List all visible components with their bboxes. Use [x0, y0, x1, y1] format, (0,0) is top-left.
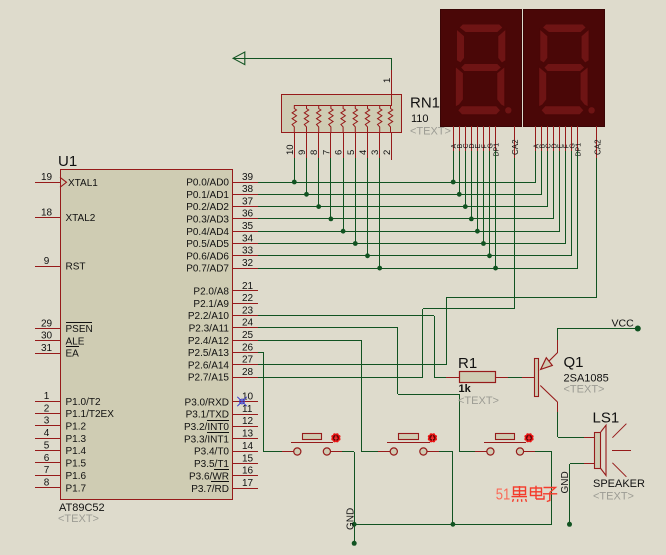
U1 pin 24 P2.3/A11 — [189, 318, 258, 335]
svg-text:18: 18 — [41, 207, 53, 218]
svg-text:R1: R1 — [458, 355, 477, 372]
svg-text:8: 8 — [309, 150, 320, 155]
wire display1 seg E vertical — [477, 151, 479, 231]
svg-text:P0.5/AD5: P0.5/AD5 — [186, 239, 229, 250]
wire P2.3 to button3 (lower horizontal) — [460, 451, 475, 453]
U1 pin 16 P3.6/WR — [189, 466, 258, 483]
svg-text:32: 32 — [242, 258, 254, 269]
svg-text:P2.4/A12: P2.4/A12 — [188, 336, 230, 347]
junction GND bus / button2 — [451, 522, 456, 527]
RN1 internal common bus — [294, 105, 392, 107]
svg-text:7: 7 — [44, 465, 50, 476]
svg-text:110: 110 — [411, 113, 429, 125]
svg-text:15: 15 — [242, 453, 254, 464]
push button 3 (P2.3 net) — [475, 433, 535, 455]
U1 pin 1 P1.0/T2 — [35, 391, 101, 408]
svg-text:21: 21 — [242, 281, 254, 292]
RN1 pin 6 stub — [334, 132, 345, 158]
svg-text:2: 2 — [44, 403, 50, 414]
svg-text:P0.4/AD4: P0.4/AD4 — [186, 227, 229, 238]
wire P0.7 net (horizontal) — [258, 268, 578, 270]
svg-text:36: 36 — [242, 209, 254, 220]
display2 pin F stub — [564, 126, 571, 151]
wire Q1 emitter to VCC — [557, 328, 559, 340]
U1 pin 28 P2.7/A15 — [188, 367, 258, 384]
U1 pin 19 XTAL1 — [35, 172, 98, 189]
U1 pin 5 P1.4 — [35, 440, 87, 457]
svg-text:<TEXT>: <TEXT> — [458, 395, 499, 407]
svg-text:3: 3 — [370, 150, 381, 155]
wire P2.2 to R1 (horizontal) — [258, 315, 434, 317]
Q1 reference label — [564, 354, 584, 371]
junction display1 seg D / P0.3 — [469, 217, 474, 222]
Q1 emitter diagonal — [541, 353, 558, 370]
svg-text:P1.5: P1.5 — [66, 459, 87, 470]
RN1 resistor element 2 — [388, 105, 392, 132]
svg-text:P2.5/A13: P2.5/A13 — [188, 348, 230, 359]
wire P2.5 to button1 (vertical) — [263, 352, 265, 452]
junction display1 seg B / P0.1 — [457, 192, 462, 197]
Q1 property text — [564, 384, 605, 396]
svg-text:28: 28 — [242, 367, 254, 378]
wire LS1 to GND (vertical) — [569, 464, 571, 524]
RN1 resistor element 7 — [329, 105, 333, 132]
U1 pin 35 P0.4/AD4 — [186, 221, 258, 238]
RN1 resistor element 9 — [304, 105, 308, 132]
wire display1 CA2 (vertical short) — [422, 309, 424, 377]
U1 pin 36 P0.3/AD3 — [186, 209, 258, 226]
wire Q1 collector to speaker (horizontal) — [558, 437, 584, 439]
svg-text:P2.1/A9: P2.1/A9 — [193, 299, 229, 310]
U1 pin 32 P0.7/AD7 — [186, 258, 258, 275]
svg-text:P2.0/A8: P2.0/A8 — [193, 287, 229, 298]
svg-text:P1.0/T2: P1.0/T2 — [66, 397, 101, 408]
wire P0.0 net (horizontal) — [258, 182, 536, 184]
U1 pin 17 P3.7/RD — [191, 478, 258, 495]
svg-text:GND: GND — [346, 508, 357, 530]
svg-text:P0.2/AD2: P0.2/AD2 — [186, 202, 229, 213]
U1 pin 7 P1.6 — [35, 465, 87, 482]
svg-text:3: 3 — [44, 416, 50, 427]
U1 pin 37 P0.2/AD2 — [186, 196, 258, 213]
RN1 pin 9 stub — [297, 132, 308, 158]
svg-text:51: 51 — [496, 487, 511, 504]
RN1 pin 7 stub — [321, 132, 332, 158]
wire display2 seg D vertical — [553, 151, 555, 219]
U1 pin 14 P3.4/T0 — [194, 441, 258, 458]
svg-text:P0.0/AD0: P0.0/AD0 — [186, 178, 229, 189]
wire display1 CA2 (upper vertical) — [514, 158, 516, 309]
svg-text:CA2: CA2 — [593, 139, 602, 155]
display1 pin D stub — [469, 126, 476, 151]
svg-text:35: 35 — [242, 221, 254, 232]
wire P2.3 to button3 (lower vertical) — [459, 394, 461, 452]
display2 pin A stub — [534, 126, 541, 151]
svg-text:9: 9 — [44, 256, 50, 267]
U1 pin 21 P2.0/A8 — [193, 281, 258, 298]
svg-text:25: 25 — [242, 330, 254, 341]
push button 1 (P2.5 net) — [282, 433, 342, 455]
display2 pin DP1 stub — [576, 126, 583, 157]
svg-text:P3.5/T1: P3.5/T1 — [194, 459, 229, 470]
Q1 value label 2SA1085 — [564, 373, 609, 385]
svg-text:9: 9 — [297, 150, 308, 155]
ground terminal (speaker) — [560, 471, 572, 527]
wire VCC net — [558, 328, 638, 330]
RN1 resistor element 10 — [292, 105, 296, 132]
wire P0.4 net (horizontal) — [258, 231, 560, 233]
svg-text:10: 10 — [285, 144, 296, 155]
U1 pin 12 P3.2/INT0 — [184, 416, 258, 433]
wire P2.3 to button3 (vertical) — [397, 328, 399, 394]
Q1 collector diagonal — [540, 386, 557, 403]
svg-text:4: 4 — [358, 150, 369, 155]
svg-text:P3.0/RXD: P3.0/RXD — [185, 397, 229, 408]
RN1 property text — [410, 126, 451, 138]
junction RN1 pin 4 / P0.6 — [365, 253, 370, 258]
svg-text:12: 12 — [242, 416, 254, 427]
microcontroller U1 AT89C52 body — [61, 170, 233, 500]
wire display2 CA2 (upper vertical) — [596, 158, 598, 298]
junction GND bus / terminal — [352, 522, 357, 527]
svg-text:ALE: ALE — [66, 336, 85, 347]
svg-text:<TEXT>: <TEXT> — [564, 384, 605, 396]
junction display1 seg F / P0.5 — [481, 241, 486, 246]
display2 pin E stub — [558, 126, 565, 151]
resistor R1 body — [460, 372, 496, 383]
LS1 property text — [593, 491, 634, 503]
power terminal VCC — [612, 318, 641, 332]
resistor network RN1 body — [282, 95, 402, 133]
wire P0.6 net (horizontal) — [258, 255, 572, 257]
watermark text 51黑电子 — [496, 486, 557, 504]
svg-text:27: 27 — [242, 355, 254, 366]
wire display1 seg B vertical — [459, 151, 461, 194]
svg-text:XTAL1: XTAL1 — [68, 178, 98, 189]
U1 pin 33 P0.6/AD6 — [186, 246, 258, 263]
wire P2.2 to R1 (lower horizontal) — [434, 377, 446, 379]
junction RN1 pin 10 / P0.0 — [292, 180, 297, 185]
svg-text:P0.7/AD7: P0.7/AD7 — [186, 264, 229, 275]
RN1 resistor element 6 — [341, 105, 345, 132]
7-segment display 1 body — [441, 10, 522, 127]
svg-text:6: 6 — [44, 453, 50, 464]
svg-text:P3.7/RD: P3.7/RD — [191, 484, 229, 495]
svg-text:P3.2/INT0: P3.2/INT0 — [184, 422, 229, 433]
U1 value label AT89C52 — [59, 502, 105, 514]
svg-text:33: 33 — [242, 246, 254, 257]
svg-text:U1: U1 — [58, 153, 77, 170]
wire display1 seg DP1 vertical — [495, 151, 497, 268]
Q1 collector lead vertical — [557, 402, 559, 412]
wire P0.5 net (horizontal) — [258, 243, 566, 245]
wire RN1 pin 8 vertical — [318, 158, 320, 207]
svg-text:1k: 1k — [459, 383, 472, 395]
display2 pin D stub — [552, 126, 559, 151]
wire P0.2 net (horizontal) — [258, 206, 548, 208]
svg-text:XTAL2: XTAL2 — [66, 213, 96, 224]
svg-text:GND: GND — [560, 471, 571, 493]
svg-text:SPEAKER: SPEAKER — [593, 478, 645, 490]
svg-text:P2.7/A15: P2.7/A15 — [188, 373, 230, 384]
wire RN1 pin 5 vertical — [355, 158, 357, 244]
svg-text:10: 10 — [242, 392, 254, 403]
junction display1 seg C / P0.2 — [463, 204, 468, 209]
wire GND bus (horizontal) — [354, 524, 552, 526]
svg-text:34: 34 — [242, 233, 254, 244]
svg-text:P3.4/T0: P3.4/T0 — [194, 447, 229, 458]
junction display1 seg G / P0.6 — [487, 253, 492, 258]
U1 pin 30 ALE — [35, 331, 85, 348]
svg-text:<TEXT>: <TEXT> — [410, 126, 451, 138]
LS1 reference label — [593, 410, 620, 427]
wire display2 seg E vertical — [559, 151, 561, 231]
display2 pin CA2 stub — [593, 126, 602, 158]
RN1 resistor element 4 — [365, 105, 369, 132]
junction RN1 pin 9 / P0.1 — [304, 192, 309, 197]
R1 reference label — [458, 355, 477, 372]
display2 pin C stub — [546, 126, 553, 151]
svg-text:16: 16 — [242, 466, 254, 477]
U1 pin 10 P3.0/RXD — [185, 392, 258, 409]
wire display2 seg C vertical — [547, 151, 549, 207]
wire R1 to Q1 base — [508, 377, 522, 379]
wire LS1 to GND (horizontal) — [570, 463, 584, 465]
wire RN1 pin 4 vertical — [367, 158, 369, 256]
U1 pin 18 XTAL2 — [35, 207, 96, 224]
svg-text:PSEN: PSEN — [66, 324, 93, 335]
wire P2.5 to button1 (horizontal) — [258, 352, 264, 354]
svg-text:DP1: DP1 — [493, 143, 500, 157]
svg-text:P3.3/INT1: P3.3/INT1 — [184, 434, 229, 445]
RN1 pin 1 internal lead — [391, 95, 393, 105]
U1 pin 13 P3.3/INT1 — [184, 429, 258, 446]
U1 property text — [58, 513, 99, 525]
U1 pin 29 PSEN — [35, 318, 93, 335]
U1 pin 25 P2.4/A12 — [188, 330, 258, 347]
svg-text:38: 38 — [242, 184, 254, 195]
display1 pin G stub — [487, 126, 494, 151]
svg-text:<TEXT>: <TEXT> — [593, 491, 634, 503]
RN1 pin 4 stub — [358, 132, 369, 158]
svg-text:P0.3/AD3: P0.3/AD3 — [186, 215, 229, 226]
wire display1 seg G vertical — [489, 151, 491, 256]
RN1 pin 5 stub — [346, 132, 357, 158]
svg-text:19: 19 — [41, 172, 53, 183]
wire button2 to GND bus — [439, 452, 453, 525]
U1 pin 26 P2.5/A13 — [188, 342, 258, 359]
svg-text:P2.6/A14: P2.6/A14 — [188, 360, 230, 371]
svg-text:6: 6 — [334, 150, 345, 155]
svg-text:EA: EA — [66, 349, 80, 360]
RN1 pin 10 stub — [285, 132, 296, 158]
svg-text:P0.6/AD6: P0.6/AD6 — [186, 251, 229, 262]
display1 pin B stub — [457, 126, 464, 151]
junction RN1 pin 5 / P0.5 — [353, 241, 358, 246]
push button 2 (P2.4 net) — [378, 433, 439, 455]
wire display2 seg DP1 vertical — [577, 151, 579, 268]
U1 pin 27 P2.6/A14 — [188, 355, 258, 372]
wire P2.7 net (horizontal) — [258, 377, 423, 379]
U1 pin 2 P1.1/T2EX — [35, 403, 114, 420]
RN1 resistor element 8 — [317, 105, 321, 132]
display2 pin B stub — [540, 126, 547, 151]
svg-text:37: 37 — [242, 196, 254, 207]
svg-text:P1.7: P1.7 — [66, 483, 87, 494]
RN1 reference label — [410, 95, 440, 112]
U1 pin 6 P1.5 — [35, 453, 87, 470]
wire P2.4 to button2 (lower horizontal) — [362, 451, 378, 453]
wire terminal to RN1 pin1 (vertical) — [391, 58, 393, 70]
U1 pin 9 RST — [35, 256, 86, 273]
wire display1 seg F vertical — [483, 151, 485, 244]
svg-text:29: 29 — [41, 318, 53, 329]
ground terminal (buttons) — [346, 508, 357, 546]
wire display1 CA2 (jog horizontal) — [423, 308, 515, 310]
wire terminal to RN1 pin1 (horizontal) — [233, 58, 392, 60]
U1 pin 31 EA — [35, 343, 79, 360]
svg-text:2: 2 — [382, 150, 393, 155]
junction RN1 pin 6 / P0.4 — [341, 229, 346, 234]
R1 right lead — [496, 377, 508, 379]
svg-text:7: 7 — [321, 150, 332, 155]
RN1 pin 1 stub — [382, 70, 393, 95]
RN1 value label 110 — [411, 113, 429, 125]
svg-text:30: 30 — [41, 331, 53, 342]
wire RN1 pin 10 vertical — [294, 158, 296, 182]
LS1 bottom lead — [584, 463, 595, 465]
svg-text:P0.1/AD1: P0.1/AD1 — [186, 190, 229, 201]
svg-text:P1.1/T2EX: P1.1/T2EX — [66, 409, 115, 420]
junction display1 seg DP1 / P0.7 — [493, 266, 498, 271]
svg-text:Q1: Q1 — [564, 354, 584, 371]
U1 pin 15 P3.5/T1 — [194, 453, 258, 470]
U1 pin 22 P2.1/A9 — [193, 293, 258, 310]
svg-text:17: 17 — [242, 478, 254, 489]
wire button3 to GND bus — [535, 452, 552, 525]
svg-text:14: 14 — [242, 441, 254, 452]
wire GND terminal stub — [354, 524, 356, 543]
display1 pin A stub — [451, 126, 458, 151]
svg-text:26: 26 — [242, 342, 254, 353]
svg-text:CA2: CA2 — [511, 139, 520, 155]
svg-text:39: 39 — [242, 172, 254, 183]
wire button1 to GND bus — [342, 452, 355, 525]
RN1 pin 8 stub — [309, 132, 320, 158]
svg-text:1: 1 — [44, 391, 50, 402]
svg-text:VCC: VCC — [612, 318, 635, 330]
no-connect marker on U1 pin 10 — [237, 397, 246, 406]
wire Q1 collector to speaker (vertical) — [557, 412, 559, 437]
U1 pin 39 P0.0/AD0 — [186, 172, 258, 189]
Q1 emitter lead vertical — [557, 340, 559, 353]
wire RN1 pin 6 vertical — [343, 158, 345, 231]
svg-text:11: 11 — [242, 404, 253, 415]
svg-text:24: 24 — [242, 318, 254, 329]
wire P2.5 to button1 (lower horizontal) — [264, 451, 282, 453]
svg-text:31: 31 — [41, 343, 53, 354]
wire display2 CA2 (jog horizontal) — [446, 297, 597, 299]
display1 pin DP1 stub — [493, 126, 500, 157]
junction RN1 pin 7 / P0.3 — [329, 217, 334, 222]
transistor Q1 base bar — [535, 359, 539, 397]
U1 pin 8 P1.7 — [35, 477, 87, 494]
RN1 resistor element 3 — [378, 105, 382, 132]
svg-text:5: 5 — [346, 150, 357, 155]
wire P2.3 to button3 (horizontal) — [258, 327, 398, 329]
svg-text:22: 22 — [242, 293, 254, 304]
svg-text:P1.6: P1.6 — [66, 471, 87, 482]
junction RN1 pin 3 / P0.7 — [377, 266, 382, 271]
Q1 emitter arrow — [541, 358, 553, 370]
wire P2.3 to button3 (jog horizontal) — [398, 394, 460, 396]
wire P2.4 to button2 (horizontal) — [258, 340, 362, 342]
wire display2 CA2 (vertical short) — [446, 298, 448, 365]
wire display2 seg B vertical — [541, 151, 543, 194]
R1 property text — [458, 395, 499, 407]
U1 pin 34 P0.5/AD5 — [186, 233, 258, 250]
wire display1 seg A vertical — [453, 151, 455, 182]
svg-text:4: 4 — [44, 428, 50, 439]
svg-text:LS1: LS1 — [593, 410, 620, 427]
R1 left lead — [446, 377, 460, 379]
R1 value label 1k — [459, 383, 472, 395]
svg-text:P2.3/A11: P2.3/A11 — [189, 324, 230, 335]
wire P2.4 to button2 (vertical) — [361, 340, 363, 452]
svg-text:RST: RST — [66, 262, 86, 273]
display2 pin G stub — [570, 126, 577, 151]
RN1 pin 2 stub (unconnected) — [382, 132, 393, 160]
svg-text:P3.6/WR: P3.6/WR — [189, 471, 229, 482]
svg-text:23: 23 — [242, 305, 254, 316]
svg-text:P2.2/A10: P2.2/A10 — [188, 311, 230, 322]
junction display1 seg E / P0.4 — [475, 229, 480, 234]
wire P0.3 net (horizontal) — [258, 218, 554, 220]
LS1 value label SPEAKER — [593, 478, 645, 490]
wire RN1 pin 9 vertical — [306, 158, 308, 194]
wire display2 seg A vertical — [535, 151, 537, 182]
U1 pin 3 P1.2 — [35, 416, 87, 433]
U1 pin 11 P3.1/TXD — [186, 404, 258, 421]
wire display2 seg F vertical — [565, 151, 567, 244]
wire P0.1 net (horizontal) — [258, 194, 542, 196]
svg-text:<TEXT>: <TEXT> — [58, 513, 99, 525]
wire RN1 pin 3 vertical — [379, 158, 381, 268]
svg-text:5: 5 — [44, 440, 50, 451]
display1 pin F stub — [481, 126, 488, 151]
RN1 pin 3 stub — [370, 132, 381, 158]
U1 pin 4 P1.3 — [35, 428, 87, 445]
LS1 sound wave lines — [612, 424, 631, 477]
svg-text:P3.1/TXD: P3.1/TXD — [186, 410, 229, 421]
U1 pin 23 P2.2/A10 — [188, 305, 258, 322]
Q1 base lead — [522, 377, 534, 379]
7-segment display 2 body — [524, 10, 605, 127]
wire display1 seg D vertical — [471, 151, 473, 219]
junction RN1 pin 8 / P0.2 — [316, 204, 321, 209]
svg-text:DP1: DP1 — [576, 143, 583, 157]
svg-text:RN1: RN1 — [410, 95, 440, 112]
wire display1 seg C vertical — [465, 151, 467, 207]
svg-text:13: 13 — [242, 429, 254, 440]
wire P2.6 net (horizontal) — [258, 364, 446, 366]
wire display2 seg G vertical — [571, 151, 573, 256]
svg-text:P1.2: P1.2 — [66, 422, 87, 433]
RN1 resistor element 5 — [353, 105, 357, 132]
junction display1 seg A / P0.0 — [451, 180, 456, 185]
svg-text:P1.4: P1.4 — [66, 446, 87, 457]
speaker LS1 body — [595, 425, 607, 475]
